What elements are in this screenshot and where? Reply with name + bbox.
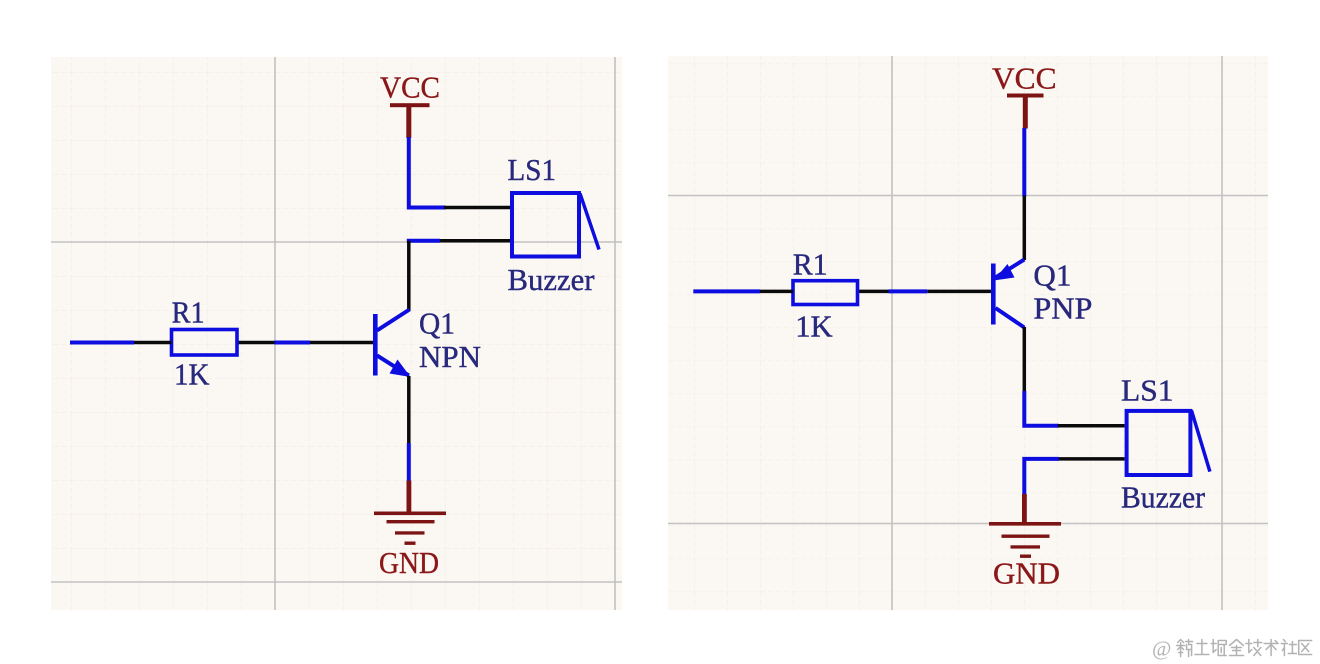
transistor Q1 emitter pin (left): [407, 376, 411, 444]
svg-text:R1: R1: [172, 295, 205, 330]
svg-text:VCC: VCC: [992, 61, 1057, 96]
power port GND symbol (left): [374, 481, 446, 545]
transistor Q1 PNP body (right): [991, 260, 1024, 328]
buzzer LS1 pin 2 (right): [1058, 457, 1125, 461]
buzzer LS1 pin 1 (left): [444, 206, 510, 210]
wire Q1 collector to LS1 pin 1 (right): [1024, 391, 1059, 426]
resistor R1 body (left): [172, 330, 238, 356]
right sheet background: [668, 56, 1268, 610]
resistor R1 pin 2 (right): [859, 290, 889, 294]
wire input to R1 (left): [70, 341, 134, 345]
transistor Q1 collector pin (right): [1023, 327, 1027, 392]
left sheet background: [51, 57, 622, 610]
svg-text:NPN: NPN: [419, 339, 481, 374]
power port GND symbol (right): [989, 494, 1061, 558]
wire input to R1 (right): [693, 289, 760, 293]
wire LS1 pin 2 to GND (right): [1024, 459, 1059, 495]
buzzer LS1 pin 1 (right): [1058, 424, 1125, 428]
watermark: [1152, 637, 1312, 661]
svg-text:Buzzer: Buzzer: [1121, 480, 1206, 515]
svg-text:Q1: Q1: [419, 306, 455, 341]
power port VCC symbol (left): [390, 103, 430, 138]
wire Q1 emitter to GND (left): [407, 443, 411, 481]
transistor Q1 base pin (left): [310, 341, 373, 345]
svg-text:Q1: Q1: [1033, 258, 1071, 293]
svg-text:PNP: PNP: [1033, 291, 1092, 326]
wire R1 to Q1 base (right): [889, 289, 928, 293]
resistor R1 pin 2 (left): [238, 341, 275, 345]
svg-text:Buzzer: Buzzer: [508, 262, 596, 297]
transistor Q1 NPN body (left): [373, 310, 411, 378]
resistor R1 pin 1 (left): [134, 341, 172, 345]
transistor Q1 base pin (right): [927, 290, 991, 294]
svg-text:@: @: [1152, 637, 1171, 661]
svg-text:1K: 1K: [795, 309, 833, 344]
svg-text:VCC: VCC: [380, 70, 440, 105]
resistor R1 pin 1 (right): [760, 290, 793, 294]
svg-text:GND: GND: [993, 556, 1060, 591]
svg-text:R1: R1: [793, 247, 828, 282]
buzzer LS1 pin 2 (left): [438, 239, 510, 243]
wire LS1 pin 2 to Q1 collector (left): [409, 239, 440, 241]
transistor Q1 collector pin (left): [407, 241, 411, 311]
svg-text:1K: 1K: [174, 357, 210, 392]
buzzer LS1 body (left): [512, 193, 599, 257]
wire R1 to Q1 base (left): [275, 341, 311, 345]
svg-text:GND: GND: [379, 545, 439, 580]
svg-text:LS1: LS1: [1121, 373, 1174, 408]
buzzer LS1 body (right): [1127, 411, 1210, 476]
svg-text:LS1: LS1: [508, 152, 557, 187]
wire VCC to Q1 emitter (right): [1022, 128, 1026, 197]
transistor Q1 emitter pin (right): [1023, 196, 1027, 261]
resistor R1 body (right): [793, 281, 858, 305]
power port VCC symbol (right): [1007, 94, 1044, 129]
wire VCC to LS1 pin 1 (left): [409, 137, 446, 208]
